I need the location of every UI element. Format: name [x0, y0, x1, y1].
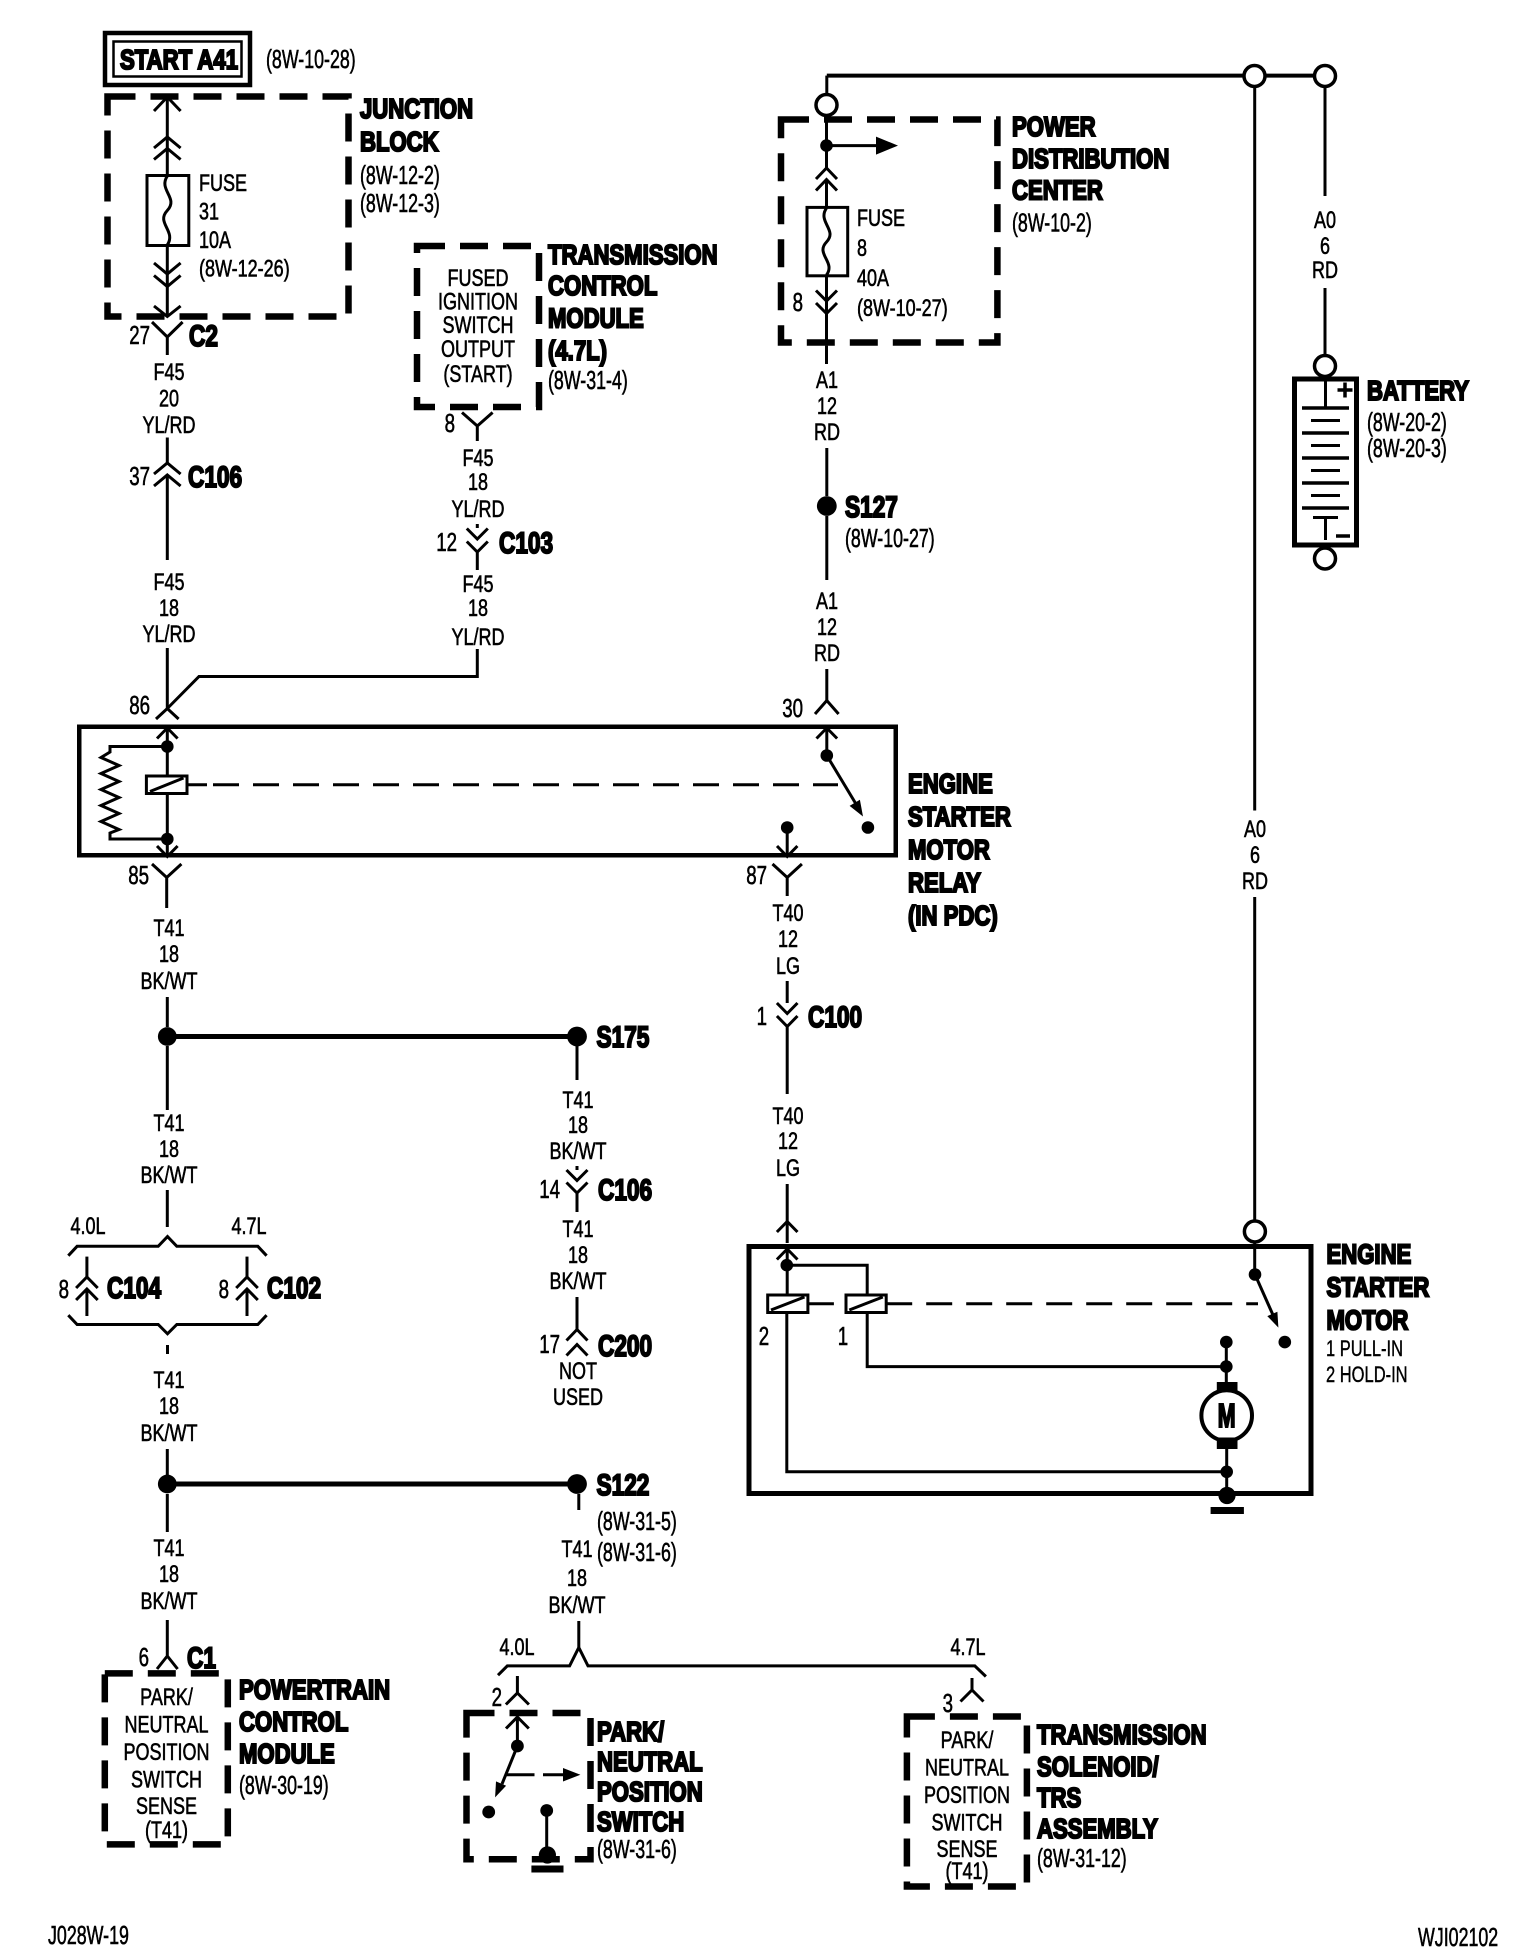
svg-text:FUSE: FUSE — [199, 170, 247, 197]
svg-text:T40: T40 — [773, 1103, 804, 1130]
svg-text:RD: RD — [1312, 257, 1338, 284]
short wire stub — [166, 1345, 169, 1354]
svg-text:SWITCH: SWITCH — [443, 312, 514, 339]
svg-text:STARTER: STARTER — [908, 801, 1011, 832]
svg-text:BK/WT: BK/WT — [141, 1420, 198, 1447]
battery positive ring — [1315, 356, 1336, 377]
wire — [166, 438, 169, 464]
junction dot — [781, 1259, 794, 1272]
wire label T41 18 BK/WT — [550, 1216, 607, 1295]
relay linkage dashed line — [187, 783, 207, 786]
battery internal plates — [1302, 377, 1349, 540]
battery negative ring — [1315, 548, 1336, 569]
svg-text:(4.7L): (4.7L) — [548, 335, 607, 366]
svg-text:POSITION: POSITION — [597, 1776, 703, 1807]
connector pin 8 below TCM — [445, 408, 493, 441]
connector C1 pin 6 — [139, 1642, 216, 1675]
connector C106 pin 14 (double chevron down) — [539, 1166, 652, 1212]
wire to splice S122 — [167, 1482, 569, 1487]
hold-in coil 2 — [759, 1295, 808, 1351]
svg-text:(T41): (T41) — [946, 1858, 989, 1885]
PCM in-box labels — [124, 1684, 210, 1844]
svg-text:4.0L: 4.0L — [500, 1634, 535, 1661]
wire label T40 12 LG — [773, 1103, 804, 1182]
svg-text:20: 20 — [159, 386, 179, 413]
svg-text:(8W-10-28): (8W-10-28) — [266, 44, 356, 74]
connector Y pin 87 — [746, 860, 802, 896]
svg-text:BK/WT: BK/WT — [550, 1268, 607, 1295]
wire label T41 18 BK/WT — [141, 1367, 198, 1447]
svg-text:POSITION: POSITION — [924, 1782, 1010, 1809]
svg-text:ASSEMBLY: ASSEMBLY — [1037, 1813, 1158, 1844]
wire into coils — [786, 1249, 789, 1295]
svg-text:BATTERY: BATTERY — [1367, 375, 1469, 406]
wire — [576, 1297, 579, 1329]
wire below junction — [166, 1046, 169, 1110]
wire — [166, 1449, 169, 1475]
svg-text:MODULE: MODULE — [239, 1738, 335, 1769]
battery minus sign — [1336, 534, 1350, 538]
svg-text:(8W-12-2): (8W-12-2) — [360, 160, 440, 190]
connector C100 pin 1 (double chevron down) — [757, 1001, 863, 1094]
svg-text:SWITCH: SWITCH — [131, 1767, 202, 1794]
pin 87 output: wire label T40 12 LG — [773, 900, 804, 980]
svg-text:18: 18 — [159, 1561, 179, 1588]
connector Y pin 85 — [128, 860, 181, 908]
brace top (4.0L / 4.7L split) — [68, 1237, 266, 1256]
switch lower contact dot — [482, 1806, 495, 1819]
wire label F45 18 YL/RD — [452, 445, 505, 523]
junction block dashed box — [108, 97, 349, 317]
wire to engine split brace — [166, 1190, 169, 1227]
relay name labels — [908, 768, 1011, 931]
switch blade with arrow — [502, 1746, 517, 1784]
starter switch lower contact dot — [1279, 1336, 1292, 1349]
svg-text:18: 18 — [568, 1242, 588, 1269]
svg-text:18: 18 — [159, 1136, 179, 1163]
bus junction dot — [820, 139, 833, 152]
junction dot coil1/motor — [1220, 1360, 1233, 1373]
wire ring to switch pole — [1253, 1242, 1256, 1269]
chevron down at junction block edge — [154, 306, 181, 317]
svg-text:27: 27 — [129, 320, 150, 350]
starter switch pole dot — [1249, 1268, 1262, 1281]
svg-text:C103: C103 — [499, 527, 553, 560]
svg-text:2: 2 — [492, 1682, 502, 1712]
svg-text:T41: T41 — [562, 1536, 593, 1563]
svg-text:18: 18 — [468, 469, 488, 496]
svg-text:4.7L: 4.7L — [951, 1634, 986, 1661]
battery feed: wire from right ring down — [1324, 87, 1327, 197]
wire fuse to PDC edge — [825, 276, 828, 346]
double chevron down below fuse — [154, 263, 181, 287]
svg-text:S127: S127 — [845, 491, 898, 524]
wire below PDC — [825, 346, 828, 364]
svg-text:8: 8 — [793, 287, 803, 317]
double chevron up above fuse 8 — [816, 168, 837, 191]
svg-text:10A: 10A — [199, 227, 231, 254]
svg-text:(START): (START) — [443, 361, 512, 388]
S122 branch: wire down — [577, 1494, 580, 1510]
wire to ground — [545, 1811, 548, 1852]
svg-text:RD: RD — [1242, 868, 1268, 895]
svg-text:CONTROL: CONTROL — [239, 1706, 348, 1737]
right contact dot — [540, 1804, 553, 1817]
svg-text:(8W-31-12): (8W-31-12) — [1037, 1843, 1127, 1873]
connector C106 pin 37 (double chevron up) — [129, 461, 242, 494]
svg-text:6: 6 — [139, 1642, 149, 1672]
junction dot — [161, 833, 174, 846]
resistor (relay parallel resistor) — [101, 747, 167, 840]
svg-text:YL/RD: YL/RD — [143, 621, 196, 648]
pull-in coil 1 — [838, 1295, 886, 1351]
svg-text:8: 8 — [219, 1274, 229, 1304]
power distribution center dashed box — [781, 120, 997, 343]
svg-text:4.0L: 4.0L — [71, 1213, 106, 1240]
svg-text:T41: T41 — [154, 1367, 185, 1394]
svg-text:TRANSMISSION: TRANSMISSION — [1037, 1719, 1207, 1750]
TRS in-box labels — [924, 1727, 1010, 1885]
battery plus sign — [1338, 383, 1353, 398]
svg-text:17: 17 — [539, 1329, 560, 1359]
svg-text:BK/WT: BK/WT — [549, 1592, 606, 1619]
PDC name labels — [1012, 111, 1169, 238]
svg-text:2 HOLD-IN: 2 HOLD-IN — [1326, 1362, 1408, 1387]
svg-text:MOTOR: MOTOR — [1327, 1305, 1409, 1336]
wire label A0 6 RD — [1242, 816, 1268, 895]
svg-text:4.7L: 4.7L — [232, 1213, 267, 1240]
ground bar — [531, 1866, 563, 1873]
TRS name labels — [1037, 1719, 1207, 1873]
park/neutral position switch dashed box — [467, 1713, 591, 1859]
wire from START A41 into junction block — [166, 98, 169, 175]
svg-text:18: 18 — [468, 595, 488, 622]
wire label T41 18 BK/WT — [550, 1087, 607, 1165]
node START A41 box — [105, 33, 250, 85]
svg-text:87: 87 — [746, 860, 767, 890]
pin 30 chevron inside relay — [817, 728, 838, 739]
relay switch blade with arrow — [827, 756, 856, 805]
svg-text:BK/WT: BK/WT — [141, 968, 198, 995]
svg-text:YL/RD: YL/RD — [452, 496, 505, 523]
wire — [786, 981, 789, 1003]
splice S122 — [567, 1469, 649, 1502]
svg-text:POSITION: POSITION — [124, 1739, 210, 1766]
wire label A0 6 RD — [1312, 207, 1338, 284]
wire — [825, 448, 828, 496]
wire below junction to C1 — [166, 1494, 169, 1532]
linkage dashed line — [808, 1302, 846, 1305]
svg-text:(8W-31-5): (8W-31-5) — [597, 1506, 677, 1536]
svg-text:12: 12 — [817, 393, 837, 420]
svg-text:(8W-20-3): (8W-20-3) — [1367, 433, 1447, 463]
svg-text:(8W-31-6): (8W-31-6) — [597, 1537, 677, 1567]
svg-text:OUTPUT: OUTPUT — [441, 336, 515, 363]
svg-text:37: 37 — [129, 461, 150, 491]
svg-text:TRS: TRS — [1037, 1782, 1081, 1813]
relay coil — [146, 776, 187, 794]
svg-text:T41: T41 — [154, 1110, 185, 1137]
svg-text:ENGINE: ENGINE — [1327, 1239, 1412, 1270]
wire label F45 18 YL/RD — [143, 569, 196, 648]
svg-text:12: 12 — [778, 926, 798, 953]
svg-text:J028W-19: J028W-19 — [48, 1920, 129, 1950]
starter feed terminal dot — [1220, 1336, 1233, 1349]
svg-text:2: 2 — [759, 1321, 769, 1351]
switch pole dot — [821, 749, 834, 762]
svg-text:PARK/: PARK/ — [597, 1716, 664, 1747]
wire coil to pin 85 — [166, 794, 169, 857]
svg-text:8: 8 — [59, 1274, 69, 1304]
splice S127 — [817, 491, 935, 553]
relay K1 engine starter motor relay box — [79, 727, 896, 856]
svg-text:NEUTRAL: NEUTRAL — [925, 1755, 1009, 1782]
connector C103 pin 12 (double chevron down) — [436, 524, 553, 570]
top feed wire from PDC to battery junctions — [827, 74, 1244, 78]
svg-text:C104: C104 — [107, 1272, 161, 1305]
transmission solenoid TRS dashed box — [907, 1717, 1027, 1887]
svg-text:RD: RD — [814, 419, 840, 446]
connector C104 pin 8 branch — [59, 1257, 162, 1316]
pin 2 chevron inside — [506, 1717, 529, 1729]
svg-text:85: 85 — [128, 860, 149, 890]
S175 branch: wire down — [576, 1046, 579, 1080]
svg-text:RD: RD — [814, 640, 840, 667]
brace split 4.0L/4.7L — [498, 1648, 986, 1677]
svg-text:14: 14 — [539, 1174, 560, 1204]
wire terminal to motor — [1225, 1342, 1228, 1382]
pin 86 entry marks — [156, 709, 179, 720]
pin 87 dot — [781, 821, 794, 834]
wire label F45 20 YL/RD — [143, 359, 196, 439]
fuse 8 labels — [857, 205, 948, 322]
battery feed ring at starter box edge — [1244, 1221, 1265, 1242]
wire continues to starter switch — [1253, 897, 1256, 1221]
svg-text:BK/WT: BK/WT — [550, 1138, 607, 1165]
wire label A1 12 RD — [814, 367, 840, 446]
connector C2 pin 27 — [129, 320, 218, 355]
svg-text:(IN PDC): (IN PDC) — [908, 900, 998, 931]
connector pin 3 (TRS) — [943, 1678, 984, 1718]
svg-text:SWITCH: SWITCH — [597, 1806, 684, 1837]
wire to split brace — [577, 1621, 580, 1647]
chevron above starter box — [777, 1222, 798, 1233]
svg-text:LG: LG — [776, 1155, 800, 1182]
connector chevrons (double, up) inside junction block — [154, 137, 181, 160]
connector C102 pin 8 branch — [219, 1257, 322, 1316]
svg-text:T41: T41 — [563, 1216, 594, 1243]
wire — [166, 997, 169, 1027]
svg-text:(8W-12-26): (8W-12-26) — [199, 256, 290, 283]
junction dot to S175 — [158, 1027, 177, 1046]
powertrain control module dashed box — [105, 1673, 228, 1844]
svg-text:8: 8 — [857, 235, 867, 262]
wire to switch pole — [516, 1717, 519, 1740]
junction dot motor/coil2 return — [1220, 1466, 1233, 1479]
svg-text:12: 12 — [817, 614, 837, 641]
svg-text:(8W-31-6): (8W-31-6) — [597, 1834, 677, 1864]
svg-text:18: 18 — [567, 1565, 587, 1592]
wire label A1 12 RD — [814, 588, 840, 667]
svg-text:F45: F45 — [463, 571, 494, 598]
svg-text:SENSE: SENSE — [136, 1793, 197, 1820]
TCM in-box labels — [438, 265, 518, 388]
svg-text:S122: S122 — [597, 1469, 650, 1502]
junction dot — [161, 740, 174, 753]
pin 85 chevron down at edge — [157, 846, 178, 857]
svg-text:C2: C2 — [189, 320, 218, 353]
svg-text:30: 30 — [782, 693, 803, 723]
wire pin 87 — [786, 828, 789, 857]
svg-text:MOTOR: MOTOR — [908, 834, 990, 865]
svg-text:31: 31 — [199, 199, 219, 226]
svg-text:A1: A1 — [816, 367, 838, 394]
wire pin 30 to switch pole — [825, 728, 828, 750]
splice S175 — [567, 1021, 649, 1054]
wire to battery — [1324, 288, 1327, 356]
transmission control module dashed box — [417, 246, 539, 407]
svg-text:F45: F45 — [463, 445, 494, 472]
wire ring to bus dot — [825, 116, 828, 169]
svg-text:POWERTRAIN: POWERTRAIN — [239, 1674, 390, 1705]
wire motor to ground — [1225, 1449, 1228, 1493]
svg-text:T40: T40 — [773, 900, 804, 927]
svg-text:(8W-10-2): (8W-10-2) — [1012, 208, 1092, 238]
fuse 31 labels — [199, 170, 290, 283]
connector pin 2 (PNP switch) — [492, 1676, 529, 1712]
fuse 8 40A — [807, 207, 848, 275]
svg-text:T41: T41 — [154, 1535, 185, 1562]
svg-text:NEUTRAL: NEUTRAL — [597, 1746, 703, 1777]
movement indicator line and arrow — [506, 1773, 535, 1776]
starter name labels — [1326, 1239, 1429, 1388]
coil 1 return wire to motor feed — [867, 1313, 1226, 1367]
svg-text:86: 86 — [129, 690, 150, 720]
junction dot to S122 — [158, 1475, 177, 1494]
wire — [166, 476, 169, 560]
svg-text:T41: T41 — [154, 915, 185, 942]
svg-text:POWER: POWER — [1012, 111, 1096, 142]
svg-text:1: 1 — [838, 1321, 848, 1351]
wire fuse to junction block bottom — [166, 246, 169, 317]
wire — [825, 180, 828, 208]
svg-text:C106: C106 — [598, 1174, 652, 1207]
long battery feed wire down right side — [1253, 87, 1256, 811]
svg-text:A0: A0 — [1314, 207, 1336, 234]
pin 87 chevron down at edge — [777, 846, 797, 857]
svg-text:18: 18 — [159, 941, 179, 968]
coil 2 return wire to motor ground side — [787, 1313, 1227, 1472]
svg-text:SOLENOID/: SOLENOID/ — [1037, 1751, 1159, 1782]
svg-text:1 PULL-IN: 1 PULL-IN — [1326, 1336, 1403, 1361]
svg-text:RELAY: RELAY — [908, 867, 981, 898]
svg-text:YL/RD: YL/RD — [452, 624, 505, 651]
svg-text:A0: A0 — [1244, 816, 1266, 843]
S122 refs and wire label — [549, 1506, 677, 1619]
svg-text:SWITCH: SWITCH — [932, 1810, 1003, 1837]
svg-text:8: 8 — [445, 408, 455, 438]
svg-text:NOT: NOT — [559, 1358, 597, 1385]
double chevron down below fuse — [816, 291, 837, 314]
svg-text:(8W-10-27): (8W-10-27) — [845, 523, 935, 553]
switch lower contact dot — [862, 821, 875, 834]
svg-text:S175: S175 — [597, 1021, 650, 1054]
svg-text:18: 18 — [568, 1112, 588, 1139]
ground dot — [539, 1846, 556, 1863]
svg-text:(T41): (T41) — [145, 1817, 188, 1844]
pin 86 chevron inside relay — [157, 728, 178, 739]
wire below S127 — [825, 516, 828, 580]
wire — [166, 1620, 169, 1644]
svg-text:PARK/: PARK/ — [941, 1727, 994, 1754]
svg-text:ENGINE: ENGINE — [908, 768, 993, 799]
svg-text:(8W-12-3): (8W-12-3) — [360, 188, 440, 218]
svg-text:YL/RD: YL/RD — [143, 412, 196, 439]
motor M1 — [1201, 1382, 1252, 1449]
junction ring left — [1244, 66, 1265, 87]
junction block labels — [360, 93, 473, 218]
NOT USED label — [553, 1358, 603, 1411]
wire label F45 18 YL/RD — [452, 571, 505, 651]
svg-text:LG: LG — [776, 953, 800, 980]
svg-text:FUSE: FUSE — [857, 205, 905, 232]
junction ring right — [1315, 66, 1336, 87]
svg-text:TRANSMISSION: TRANSMISSION — [548, 239, 718, 270]
svg-text:STARTER: STARTER — [1327, 1272, 1430, 1303]
svg-text:(8W-30-19): (8W-30-19) — [239, 1770, 329, 1800]
svg-text:40A: 40A — [857, 265, 889, 292]
svg-text:18: 18 — [159, 595, 179, 622]
svg-text:18: 18 — [159, 1393, 179, 1420]
svg-text:1: 1 — [757, 1001, 767, 1031]
wire from TCM branch joining node 86 — [167, 649, 477, 709]
wire to starter motor — [786, 1184, 789, 1243]
relay coil feed wire — [166, 728, 169, 776]
switch pole dot — [511, 1740, 524, 1753]
battery name labels — [1367, 375, 1469, 463]
svg-text:F45: F45 — [154, 359, 185, 386]
svg-text:C100: C100 — [808, 1001, 862, 1034]
svg-text:F45: F45 — [154, 569, 185, 596]
svg-text:M: M — [1218, 1397, 1236, 1434]
fuse 31 10A — [147, 176, 189, 246]
svg-text:BK/WT: BK/WT — [141, 1588, 198, 1615]
svg-text:C200: C200 — [598, 1330, 652, 1363]
bus arrow to other circuits — [827, 144, 881, 147]
svg-text:A1: A1 — [816, 588, 838, 615]
battery B+ box — [1295, 379, 1357, 545]
svg-text:(8W-10-27): (8W-10-27) — [857, 295, 948, 322]
PDC feed ring — [816, 95, 837, 116]
svg-text:(8W-31-4): (8W-31-4) — [548, 365, 628, 395]
ground dot at box edge — [1218, 1487, 1235, 1504]
svg-text:CENTER: CENTER — [1012, 175, 1103, 206]
wire to splice S175 — [167, 1034, 569, 1039]
svg-text:C1: C1 — [187, 1642, 216, 1675]
svg-text:JUNCTION: JUNCTION — [360, 93, 473, 124]
PCM name labels — [239, 1674, 390, 1800]
wire label T41 18 BK/WT — [141, 1535, 198, 1615]
svg-text:CONTROL: CONTROL — [548, 270, 657, 301]
connector C200 pin 17 (double chevron up) — [539, 1329, 652, 1363]
starter switch blade with arrow — [1255, 1275, 1273, 1316]
svg-text:WJI02102: WJI02102 — [1418, 1922, 1498, 1952]
svg-text:C102: C102 — [267, 1272, 321, 1305]
PNP switch name labels — [597, 1716, 703, 1864]
wire label T41 18 BK/WT (below 85) — [141, 915, 198, 995]
ground bar — [1211, 1507, 1244, 1514]
wire down into PDC — [825, 76, 828, 94]
